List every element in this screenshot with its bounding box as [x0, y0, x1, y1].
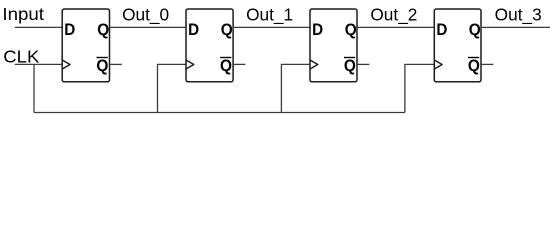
wire clock riser to U3.CLK: [281, 64, 310, 112]
U1 Qbar stub: [110, 63, 122, 65]
svg-text:Q: Q: [96, 56, 108, 75]
svg-text:D: D: [64, 20, 75, 39]
wire U4.Q output (Out_3 net): [481, 26, 550, 28]
flip-flop U3 box: [310, 9, 357, 82]
U2 Qbar overline: [220, 57, 231, 59]
svg-text:D: D: [312, 20, 323, 39]
U2 Qbar stub: [233, 63, 245, 65]
svg-text:Q: Q: [220, 56, 232, 75]
U3 clock triangle: [310, 60, 318, 69]
wire CLK vertical drop at x=34: [33, 64, 35, 112]
svg-text:Q: Q: [344, 56, 356, 75]
svg-text:D: D: [188, 20, 199, 39]
svg-text:Q: Q: [345, 20, 357, 39]
svg-text:CLK: CLK: [3, 47, 40, 67]
flip-flop U4 box: [434, 9, 481, 82]
U4 Qbar stub: [481, 63, 493, 65]
wire clock riser to U2.CLK: [158, 64, 187, 112]
wire clock bottom bus: [34, 112, 405, 114]
wire U3.Q to U4.D (Out_2 net): [357, 26, 434, 28]
U1 Qbar overline: [97, 57, 108, 59]
wire clock riser to U4.CLK: [405, 64, 434, 112]
U4 Qbar overline: [468, 57, 479, 59]
wire U2.Q to U3.D (Out_1 net): [233, 26, 310, 28]
wire CLK net to U1.CLK: [15, 63, 63, 65]
U3 Qbar stub: [357, 63, 369, 65]
svg-text:Out_0: Out_0: [122, 5, 169, 25]
U2 clock triangle: [186, 60, 194, 69]
wire Input net to U1.D: [15, 26, 62, 28]
svg-text:Q: Q: [469, 20, 481, 39]
svg-text:Out_2: Out_2: [370, 5, 417, 25]
U4 clock triangle: [434, 60, 442, 69]
svg-text:Q: Q: [468, 56, 480, 75]
svg-text:Q: Q: [221, 20, 233, 39]
flip-flop U1 box: [62, 9, 109, 82]
flip-flop U2 box: [186, 9, 233, 82]
U3 Qbar overline: [344, 57, 355, 59]
svg-text:Q: Q: [97, 20, 109, 39]
U1 clock triangle: [62, 60, 70, 69]
wire U1.Q to U2.D (Out_0 net): [110, 26, 187, 28]
svg-text:D: D: [436, 20, 447, 39]
svg-text:Input: Input: [2, 4, 44, 24]
svg-text:Out_3: Out_3: [495, 5, 542, 25]
svg-text:Out_1: Out_1: [246, 5, 293, 25]
